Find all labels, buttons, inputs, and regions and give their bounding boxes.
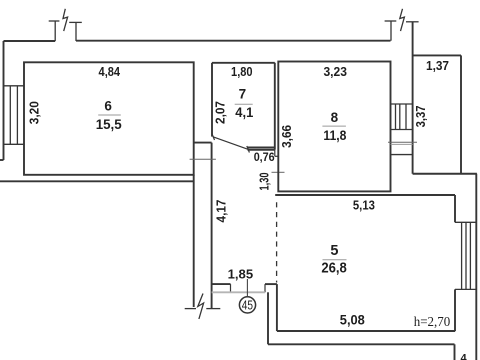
dashed boundary line of room 5 xyxy=(276,202,278,282)
room 7 bottom wall outer line xyxy=(248,149,275,151)
wall: room 5 east inner face upper piece xyxy=(454,195,456,222)
wall: top outer face left segment xyxy=(4,40,56,42)
wall: right wall outer face (x=412.6) xyxy=(412,22,414,174)
entrance door jamb tick left xyxy=(230,284,232,292)
svg-text:1,80: 1,80 xyxy=(231,64,253,79)
wall: room 5 bottom outer face xyxy=(268,343,455,345)
wall: entrance inner face right piece xyxy=(265,283,277,285)
svg-text:3,20: 3,20 xyxy=(27,101,42,124)
wall: entrance inner face left piece xyxy=(212,283,231,285)
svg-text:26,8: 26,8 xyxy=(321,261,347,277)
wall: corridor west inner face xyxy=(211,143,213,309)
entrance door jamb tick right xyxy=(264,284,266,292)
room 6 number label xyxy=(96,87,468,360)
apartment number circle 45 xyxy=(239,297,255,313)
svg-text:5: 5 xyxy=(330,243,338,259)
wall break (top-left): right stub xyxy=(75,22,77,41)
svg-text:2,07: 2,07 xyxy=(213,101,228,124)
window W3 (room 5 east wall): sill lines xyxy=(455,222,476,289)
room 1,37 (loggia) top edge xyxy=(413,54,461,56)
wall: lower face of wall below room 6 xyxy=(0,180,194,182)
room 8 fraction line xyxy=(322,125,346,127)
room 5 fraction line xyxy=(323,259,347,261)
window W2 (room 8 east wall): sill lines xyxy=(391,104,413,130)
wall break (top-left): left stub xyxy=(49,9,82,41)
svg-text:4,1: 4,1 xyxy=(235,104,253,120)
wall: top outer face main segment xyxy=(76,40,391,42)
window W1 glazing lines xyxy=(9,86,11,145)
svg-text:15,5: 15,5 xyxy=(96,116,122,132)
room 7 outline (4.1 m2): west edge xyxy=(211,63,213,137)
wall: corridor west outer face xyxy=(193,175,195,307)
wall: small tick at left edge y=160 xyxy=(0,159,4,161)
room 7 fraction line xyxy=(235,103,253,105)
svg-text:8: 8 xyxy=(331,110,339,125)
vent tick crossing room 8 east wall xyxy=(388,141,417,143)
wall break (bottom-left): zigzag cut line xyxy=(198,294,204,320)
svg-text:45: 45 xyxy=(242,297,253,312)
svg-text:11,8: 11,8 xyxy=(323,127,346,143)
wall break (top-left): zigzag cut line xyxy=(63,9,68,31)
wall: room 5 top wall xyxy=(275,194,455,196)
wall break (top-right): left stub xyxy=(385,9,419,41)
vent tick crossing room6/corridor wall xyxy=(190,158,216,160)
wall break (top-right): right stub tick xyxy=(406,21,419,23)
svg-text:h=2,70: h=2,70 xyxy=(414,315,451,330)
leader line from 1,85 to circle 45 xyxy=(246,279,248,297)
svg-text:3,66: 3,66 xyxy=(279,125,294,148)
svg-text:1,37: 1,37 xyxy=(426,58,449,73)
wall: room 5 west wall inner face xyxy=(276,284,278,331)
dimension tick at right end of 0,76 xyxy=(274,150,276,157)
window W2 glazing lines xyxy=(395,104,397,130)
svg-text:5,13: 5,13 xyxy=(353,198,375,213)
wall break (bottom-left): right tick xyxy=(206,308,220,310)
window W1 (left wall of room 6): sill lines xyxy=(4,86,24,145)
wall: outer east face xyxy=(475,174,477,360)
room 6 outline (15.5 m2) xyxy=(24,62,194,175)
svg-text:3,37: 3,37 xyxy=(413,105,428,127)
svg-text:5,08: 5,08 xyxy=(340,312,365,328)
dimension tick separating 0,76 and 1,30 xyxy=(272,171,285,173)
wall: room 5 east inner face lower piece xyxy=(454,289,456,331)
room 7 bottom wall inner line xyxy=(248,147,275,149)
room 7 east edge xyxy=(274,63,276,150)
room 1,37 east edge xyxy=(460,55,462,173)
window W3 glazing lines xyxy=(461,222,463,289)
svg-text:1,30: 1,30 xyxy=(258,172,272,190)
wall: room 5 bottom inner face xyxy=(277,330,455,332)
vent duct upper line xyxy=(391,143,413,145)
svg-text:6: 6 xyxy=(104,99,112,114)
entrance threshold line xyxy=(212,291,265,293)
vent duct lower line xyxy=(391,154,413,156)
room 7 top edge xyxy=(212,62,275,64)
svg-text:3,23: 3,23 xyxy=(323,64,347,79)
svg-text:4,17: 4,17 xyxy=(214,200,229,223)
svg-text:1,85: 1,85 xyxy=(228,268,254,282)
wall: stub below room 5 bottom wall going off image xyxy=(454,344,456,360)
wall break (top-right): zigzag cut line xyxy=(400,9,405,31)
wall break (bottom-left entrance): left tick xyxy=(185,294,221,320)
door leaf D7 (room 7 door, 0.76 m) xyxy=(212,134,250,153)
wall: cap between room6/room7 wall at corridor top xyxy=(194,142,212,144)
svg-text:7: 7 xyxy=(239,87,247,102)
wall: left outer face xyxy=(3,41,5,160)
room 6 fraction line xyxy=(98,114,121,116)
svg-text:4,84: 4,84 xyxy=(99,64,121,79)
svg-text:0,76: 0,76 xyxy=(254,152,275,164)
svg-text:4: 4 xyxy=(460,353,467,360)
wall: room 5 west wall outer face xyxy=(267,292,269,344)
room 8 outline (11.8 m2) xyxy=(278,62,390,192)
room 1,37 bottom edge xyxy=(413,173,477,175)
